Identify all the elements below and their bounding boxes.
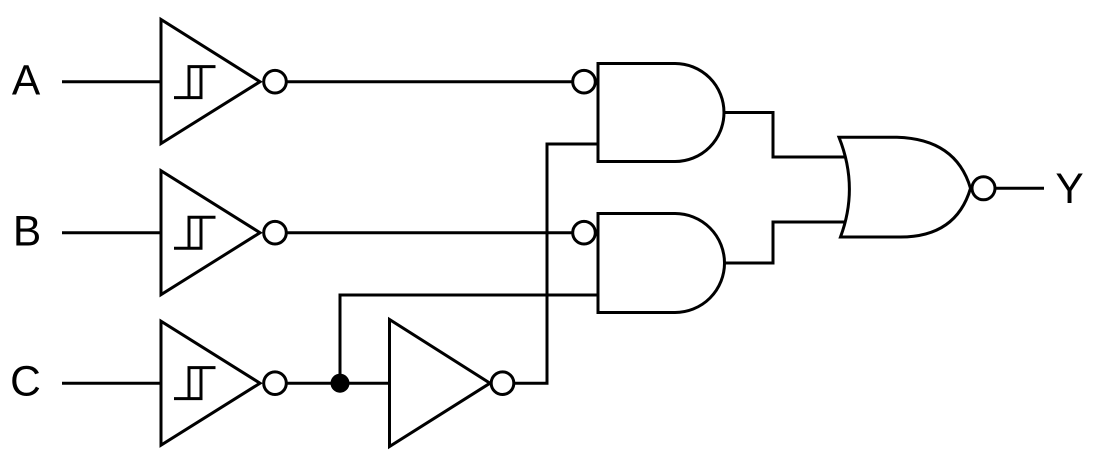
inverter U6 [390, 320, 514, 447]
svg-text:A: A [12, 58, 41, 105]
wire: input B to U2 [62, 231, 161, 234]
U5 inverted-input bubble [573, 221, 596, 244]
wire: U7 output to Y [995, 187, 1044, 190]
U2 triangle [161, 171, 260, 295]
U3 triangle [161, 321, 260, 445]
U6 triangle [390, 320, 491, 447]
wire: U6 output riser to U4 lower input [514, 144, 599, 383]
svg-text:Y: Y [1055, 166, 1083, 213]
svg-text:C: C [10, 358, 41, 405]
U4 inverted-input bubble [573, 70, 596, 93]
U7 body [839, 137, 971, 237]
NOR gate U7 [839, 137, 995, 237]
U6 output bubble [491, 372, 514, 395]
U3 hysteresis symbol [174, 368, 216, 399]
wire: input C to U3 [62, 382, 161, 385]
U1 triangle [161, 20, 260, 144]
wire: U3 output to node N1 [286, 382, 340, 385]
junction: node N1 [331, 374, 350, 393]
svg-text:B: B [13, 208, 41, 255]
U1 output bubble [264, 70, 287, 93]
wire: U5 output to U7 lower input [725, 222, 847, 263]
wire: U2 output to U5 inverted input [286, 231, 572, 234]
wire: node N1 to U6 input [340, 382, 390, 385]
U3 output bubble [264, 372, 287, 395]
U5 body [598, 214, 725, 313]
U7 output bubble [972, 177, 995, 200]
U4 body [598, 64, 724, 162]
U2 hysteresis symbol [174, 217, 216, 248]
U1 hysteresis symbol [174, 67, 216, 98]
U2 output bubble [264, 221, 287, 244]
AND gate U5 [573, 214, 725, 313]
wire: node N1 riser to U5 lower input [340, 295, 598, 383]
wire: U4 output to U7 upper input [724, 113, 846, 158]
AND gate U4 [573, 64, 724, 162]
wire: input A to U1 [62, 80, 161, 83]
wire: U1 output to U4 inverted input [286, 80, 572, 83]
schmitt inverter U3 [161, 321, 286, 445]
schmitt inverter U1 [161, 20, 286, 144]
schmitt inverter U2 [161, 171, 286, 295]
